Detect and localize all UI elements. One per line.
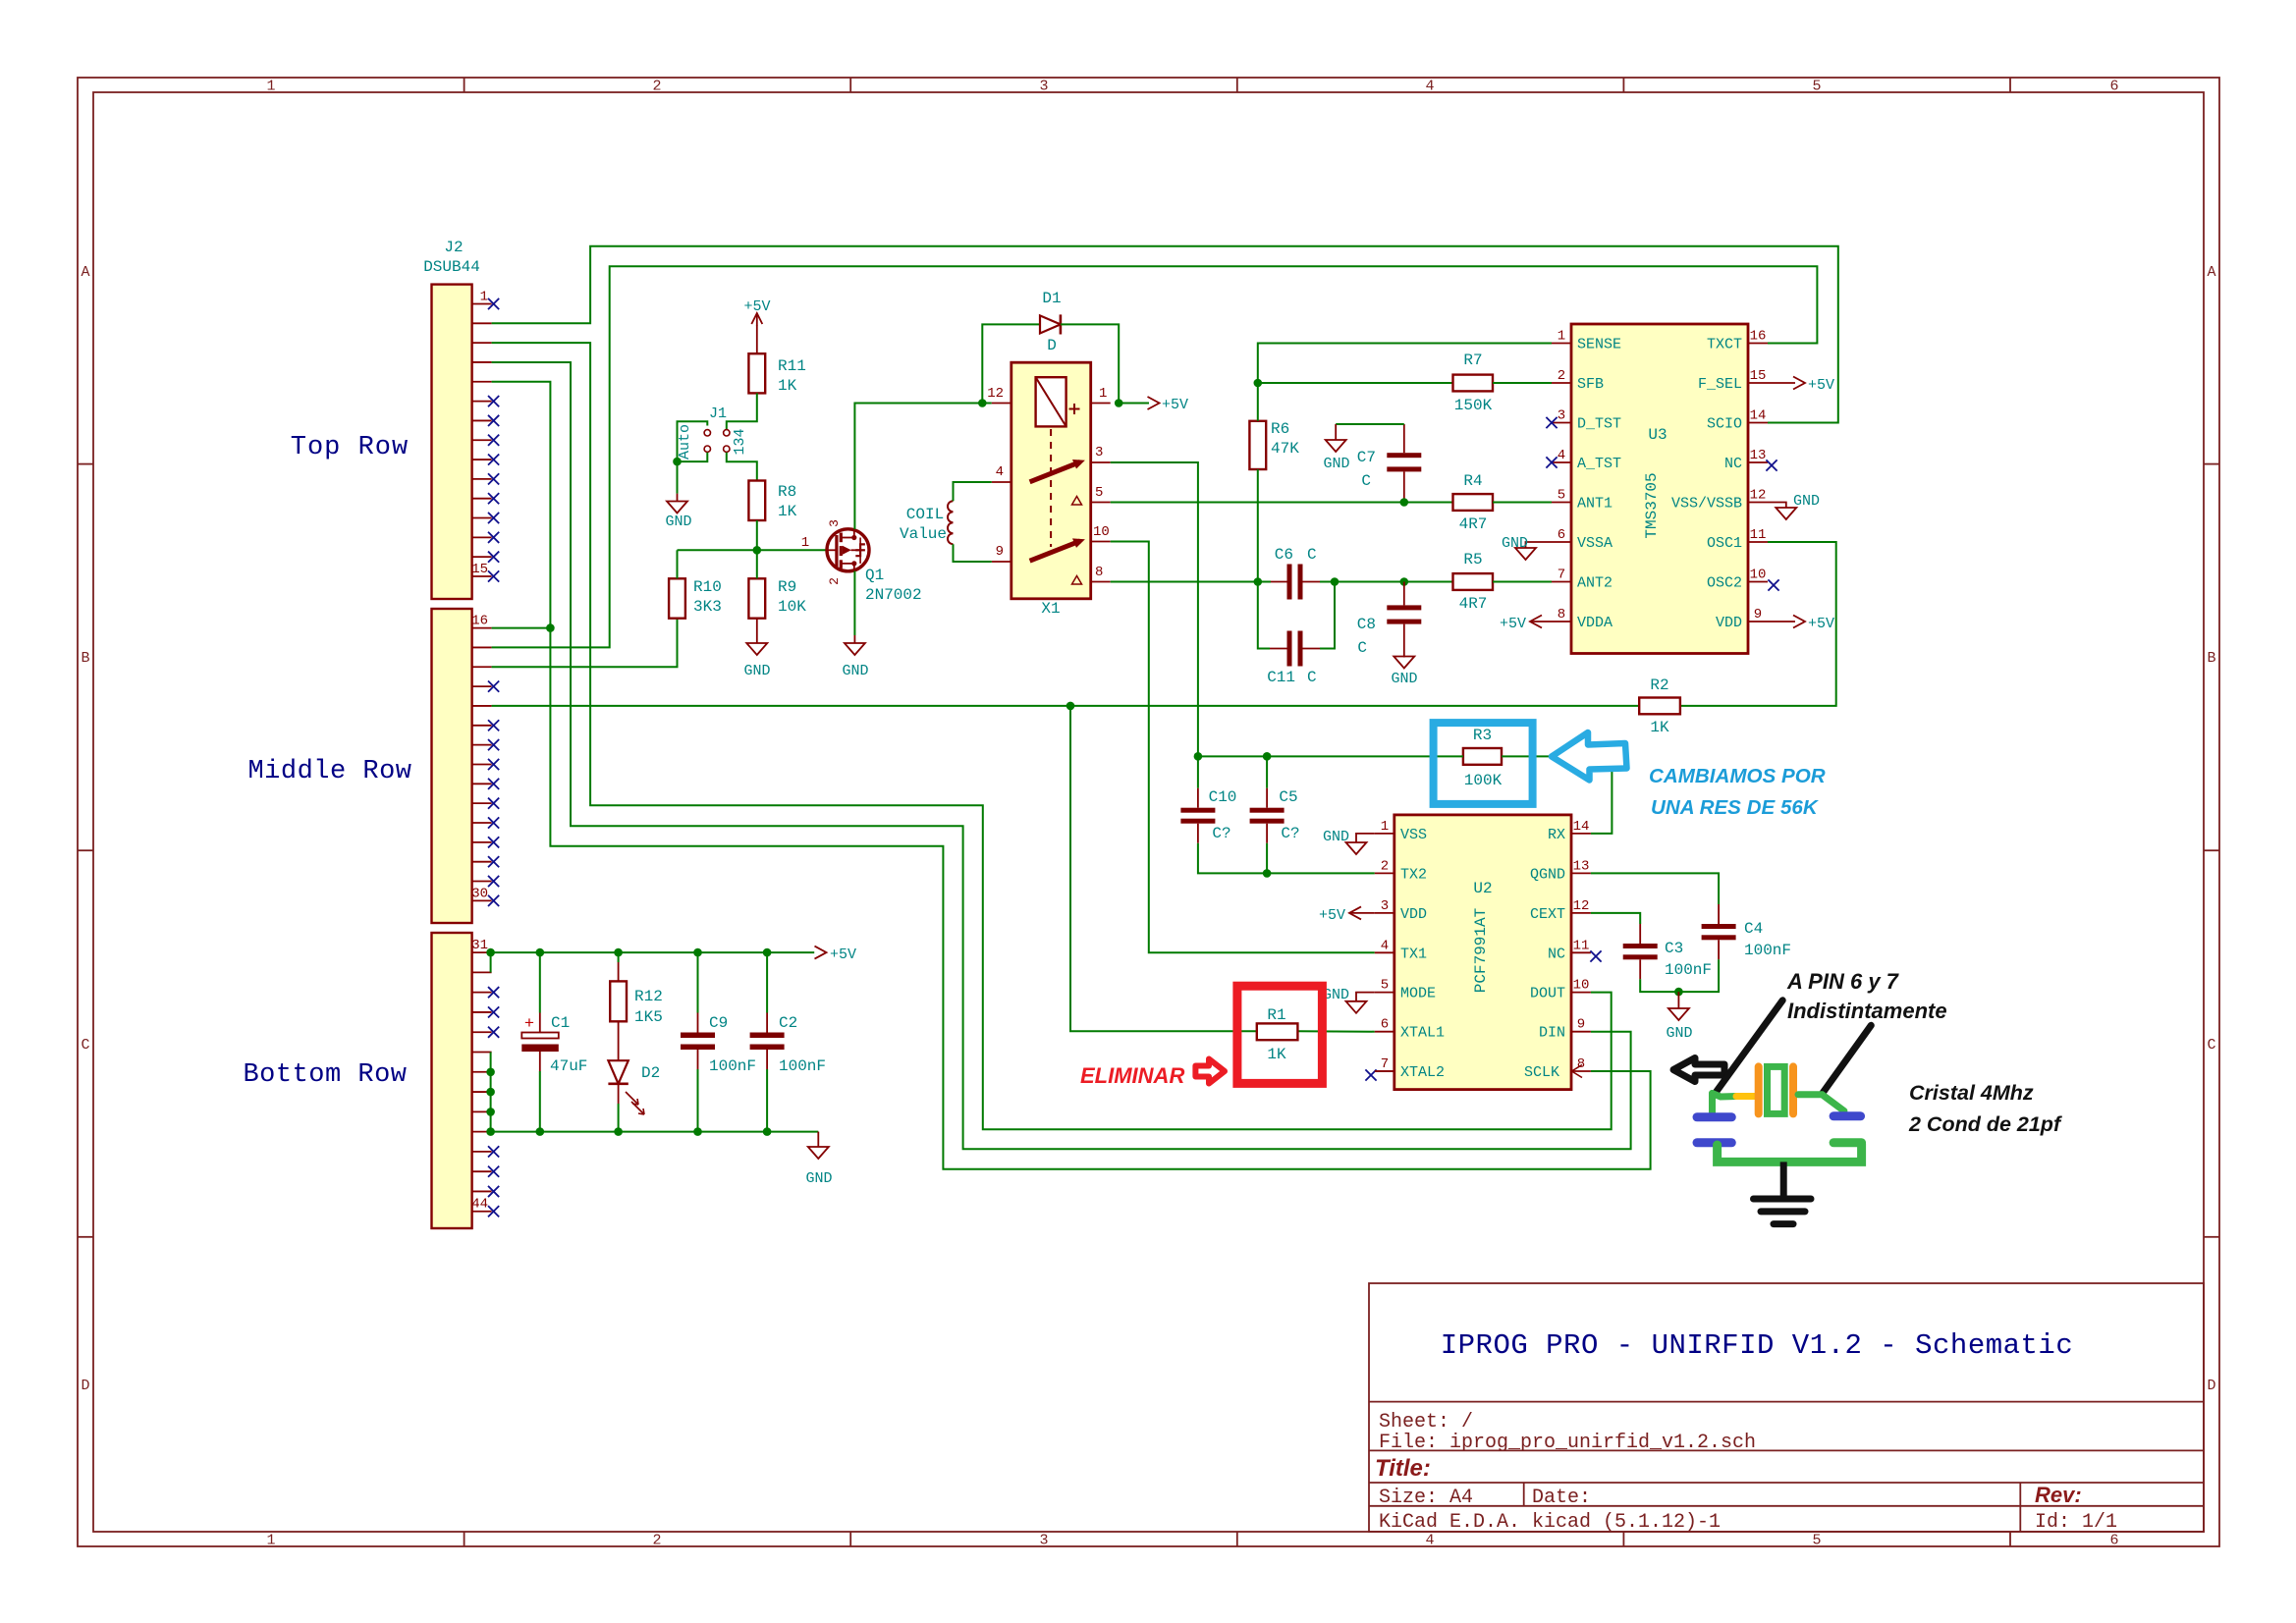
wire U3 SENSE	[1258, 344, 1552, 384]
svg-text:16: 16	[471, 614, 488, 629]
ground U3 VSS/VSSB	[1768, 503, 1786, 509]
svg-text:R6: R6	[1271, 420, 1289, 438]
svg-text:PCF7991AT: PCF7991AT	[1472, 908, 1490, 993]
svg-text:44: 44	[471, 1197, 488, 1213]
wire R4 to U3 ANT1	[1493, 502, 1552, 504]
frame row labels	[81, 264, 2215, 1394]
svg-text:2: 2	[827, 577, 842, 585]
svg-text:5: 5	[1812, 79, 1821, 95]
svg-text:D_TST: D_TST	[1577, 416, 1621, 433]
svg-text:1K5: 1K5	[634, 1008, 663, 1026]
svg-text:C4: C4	[1744, 920, 1763, 938]
svg-text:D: D	[1047, 337, 1057, 354]
power +5V bottom rail	[815, 947, 827, 959]
svg-text:Cristal 4Mhz: Cristal 4Mhz	[1909, 1081, 2034, 1105]
svg-text:8: 8	[1577, 1056, 1585, 1072]
wire R3 to U2 RX	[1502, 756, 1612, 834]
ground C7	[1326, 440, 1346, 452]
svg-text:C?: C?	[1281, 825, 1299, 842]
ground R9	[746, 643, 767, 655]
wire SFB to R7	[1258, 382, 1453, 384]
svg-text:+5V: +5V	[1500, 616, 1526, 632]
svg-text:U3: U3	[1648, 426, 1667, 444]
svg-text:+5V: +5V	[1162, 397, 1188, 413]
svg-text:3: 3	[827, 519, 842, 527]
resistor R7	[1453, 375, 1494, 392]
svg-text:13: 13	[1573, 858, 1590, 874]
svg-text:15: 15	[471, 562, 488, 577]
svg-text:3K3: 3K3	[693, 598, 722, 616]
capacitor C1 47uF	[521, 952, 559, 1132]
svg-text:TX1: TX1	[1400, 946, 1427, 962]
svg-text:B: B	[81, 650, 89, 667]
svg-text:SENSE: SENSE	[1577, 337, 1621, 353]
svg-text:Auto: Auto	[677, 424, 693, 460]
svg-text:D1: D1	[1042, 290, 1061, 307]
svg-text:2 Cond de 21pf: 2 Cond de 21pf	[1908, 1112, 2062, 1136]
junction SFB node	[1254, 379, 1263, 388]
U3 no-connect pin3	[1546, 417, 1557, 428]
wire C5 bottom	[1266, 824, 1268, 843]
junction C1 top	[536, 948, 545, 957]
annotation blue box around R3	[1434, 723, 1533, 804]
resistor R6	[1249, 421, 1266, 469]
svg-text:A: A	[2207, 264, 2215, 281]
J2 middle row pins 16-30	[471, 614, 499, 906]
svg-text:4R7: 4R7	[1459, 515, 1488, 533]
inductor COIL	[948, 501, 954, 544]
resistor R3	[1463, 748, 1502, 765]
svg-text:VSS/VSSB: VSS/VSSB	[1671, 496, 1742, 513]
X1 switch arm lower	[1030, 541, 1080, 561]
wire gate to R9	[756, 550, 758, 578]
svg-text:1K: 1K	[1650, 719, 1669, 736]
power +5V at X1 pin1	[1119, 403, 1149, 405]
wire R9 to GND	[756, 619, 758, 643]
crystal drawing yellow segment	[1736, 1093, 1758, 1100]
svg-text:C2: C2	[779, 1014, 797, 1032]
svg-text:C11: C11	[1267, 669, 1295, 686]
ground U2 MODE	[1356, 993, 1375, 1001]
svg-text:+5V: +5V	[743, 298, 770, 315]
junction C7/ANT1	[1400, 498, 1409, 507]
svg-text:134: 134	[732, 428, 748, 455]
svg-text:R5: R5	[1463, 551, 1482, 568]
svg-text:9: 9	[1754, 607, 1762, 622]
wire J2 pin4 to U2 DIN	[492, 362, 1631, 1149]
svg-text:Middle Row: Middle Row	[247, 757, 411, 786]
svg-text:D: D	[2207, 1378, 2215, 1394]
svg-text:30: 30	[471, 886, 488, 901]
wire C7 top to GND	[1403, 424, 1405, 453]
svg-text:+: +	[524, 1015, 534, 1034]
wire GND rail bottom	[491, 1131, 819, 1133]
svg-text:R9: R9	[778, 578, 796, 596]
svg-text:C: C	[1307, 546, 1317, 564]
svg-text:A: A	[81, 264, 89, 281]
svg-text:X1: X1	[1041, 600, 1060, 618]
svg-text:5: 5	[1095, 485, 1103, 501]
wire J2 pin17 to U3 TXCT (inner top rail)	[492, 266, 1818, 647]
capacitor C6	[1287, 565, 1303, 600]
junction C2 top	[763, 948, 772, 957]
junction pin39	[486, 1108, 495, 1116]
svg-text:J2: J2	[444, 239, 463, 256]
crystal earth ground (black)	[1754, 1199, 1812, 1224]
wire R3 line	[1198, 755, 1463, 757]
capacitor C3	[1623, 944, 1658, 959]
crystal right capacitor plate (blue)	[1833, 1111, 1861, 1120]
svg-text:2N7002: 2N7002	[865, 586, 922, 604]
wire J2 pins 36-39 vertical	[490, 1053, 492, 1132]
svg-text:Sheet: /: Sheet: /	[1379, 1411, 1473, 1434]
svg-text:6: 6	[1381, 1017, 1389, 1033]
junction C3/C4 gnd	[1674, 988, 1683, 997]
wire R6 to ANT2	[1257, 469, 1259, 582]
svg-text:R11: R11	[778, 357, 806, 375]
wire C11 right	[1303, 648, 1321, 650]
svg-text:7: 7	[1558, 568, 1565, 583]
wire R2 to U3 OSC1	[1680, 542, 1836, 706]
svg-text:1: 1	[266, 1533, 275, 1549]
svg-text:5: 5	[1812, 1533, 1821, 1549]
X1 switch arm upper	[1030, 462, 1080, 482]
wire J1 right lower to R8	[727, 453, 757, 481]
svg-text:ANT2: ANT2	[1577, 575, 1613, 592]
svg-text:Id: 1/1: Id: 1/1	[2035, 1511, 2117, 1534]
wire R8 to gate node	[756, 520, 758, 550]
resistor R9	[748, 578, 765, 618]
ground U3 VSSA	[1526, 542, 1553, 548]
annotation black arrow left	[1673, 1058, 1724, 1082]
wire R1 to U2 XTAL1	[1297, 1030, 1374, 1032]
svg-text:R3: R3	[1473, 727, 1492, 744]
svg-text:R2: R2	[1650, 676, 1668, 694]
IC U3 TMS3705 body	[1571, 324, 1748, 654]
power +5V above R11	[751, 313, 762, 324]
svg-text:3: 3	[1039, 1533, 1048, 1549]
annotation blue arrow	[1552, 732, 1627, 781]
svg-text:VDD: VDD	[1716, 615, 1742, 631]
junction gate	[753, 546, 762, 555]
wire J1 left lower	[678, 453, 708, 461]
resistor R2	[1639, 698, 1680, 715]
X1 pin 9	[992, 561, 1011, 563]
svg-text:IPROG PRO - UNIRFID V1.2 - Sch: IPROG PRO - UNIRFID V1.2 - Schematic	[1441, 1329, 2074, 1362]
wire J2 pin18 to R10	[492, 619, 678, 668]
wire +5V rail bottom	[491, 951, 815, 953]
annotation pointer line 2	[1822, 1025, 1871, 1094]
transistor Q1 2N7002	[827, 529, 870, 571]
wire CEXT to C3	[1591, 913, 1640, 924]
ground C8	[1394, 657, 1414, 669]
svg-text:14: 14	[1573, 819, 1590, 835]
svg-text:4: 4	[1425, 79, 1434, 95]
svg-text:+5V: +5V	[1319, 907, 1345, 924]
svg-text:1: 1	[480, 290, 488, 305]
svg-text:1K: 1K	[778, 503, 797, 520]
X1 pin 8	[1091, 581, 1111, 583]
junction R2 node	[1066, 702, 1075, 711]
svg-text:CAMBIAMOS POR: CAMBIAMOS POR	[1649, 765, 1826, 787]
wire Q1 source to GND	[853, 571, 855, 636]
svg-text:Size: A4: Size: A4	[1379, 1487, 1473, 1509]
svg-text:10K: 10K	[778, 598, 806, 616]
svg-text:6: 6	[1558, 527, 1565, 543]
svg-text:CEXT: CEXT	[1530, 906, 1565, 923]
capacitor C5	[1250, 808, 1285, 824]
resistor R1	[1257, 1023, 1298, 1040]
svg-text:12: 12	[1750, 488, 1767, 504]
svg-text:SFB: SFB	[1577, 376, 1604, 393]
svg-text:8: 8	[1558, 607, 1565, 622]
svg-text:5: 5	[1558, 488, 1565, 504]
svg-text:12: 12	[1573, 898, 1590, 914]
U2 SCLK clock chevron	[1572, 1065, 1583, 1078]
U2 no-connect pin11	[1590, 950, 1601, 961]
ground Q1	[845, 643, 865, 655]
wire X1 pin10 to U2 TX1	[1111, 542, 1375, 953]
junction rail pin40	[486, 1127, 495, 1136]
svg-text:4: 4	[1425, 1533, 1434, 1549]
junction C5 top	[1263, 752, 1272, 761]
crystal left capacitor plates (blue)	[1697, 1117, 1731, 1143]
svg-text:ELIMINAR: ELIMINAR	[1080, 1063, 1184, 1088]
capacitor C11	[1287, 631, 1303, 667]
power +5V U3 F_SEL	[1768, 382, 1795, 384]
svg-text:3: 3	[1558, 408, 1565, 424]
capacitor C2	[750, 952, 785, 1132]
wire C7 bottom to ANT1	[1403, 471, 1405, 502]
resistor R5	[1453, 573, 1494, 590]
connector J2 middle-row body	[432, 609, 472, 923]
svg-text:DSUB44: DSUB44	[423, 258, 480, 276]
ground J1	[667, 502, 687, 514]
resistor R11	[748, 353, 765, 393]
svg-text:A PIN 6 y 7: A PIN 6 y 7	[1786, 969, 1900, 994]
svg-text:7: 7	[1381, 1056, 1389, 1072]
svg-text:3: 3	[1381, 898, 1389, 914]
svg-text:3: 3	[1095, 445, 1103, 460]
svg-text:6: 6	[2109, 79, 2118, 95]
capacitor C8	[1387, 605, 1421, 623]
svg-text:C: C	[1361, 472, 1371, 490]
resistor R12	[618, 952, 620, 962]
svg-text:R7: R7	[1463, 352, 1482, 369]
wire QGND to C4	[1591, 873, 1719, 904]
wire J1 left to GND	[678, 421, 708, 493]
wire node to R1	[1070, 706, 1257, 1031]
wire C3/C4 to gnd rail	[1639, 959, 1641, 979]
svg-text:A_TST: A_TST	[1577, 456, 1621, 472]
svg-text:100nF: 100nF	[779, 1057, 826, 1075]
svg-text:100K: 100K	[1464, 772, 1503, 789]
svg-text:100nF: 100nF	[1744, 942, 1791, 959]
svg-text:ANT1: ANT1	[1577, 496, 1613, 513]
ground U2 VSS	[1356, 834, 1375, 842]
svg-text:10: 10	[1093, 524, 1110, 540]
svg-text:SCIO: SCIO	[1707, 416, 1742, 433]
svg-text:10: 10	[1750, 568, 1767, 583]
junction C9 bottom	[693, 1127, 702, 1136]
X1 pin 3	[1091, 461, 1111, 463]
J2 top row pins 1-15	[471, 290, 499, 582]
crystal bottom green wire	[1718, 1144, 1862, 1162]
wire R7 to U3 pin2	[1493, 382, 1552, 384]
wire J2 pin5/pin16 to U2 SCLK	[492, 382, 1651, 1169]
svg-text:C3: C3	[1665, 940, 1683, 957]
wire X1 pin3 down to R3 node	[1111, 462, 1198, 756]
svg-text:File: iprog_pro_unirfid_v1.2.s: File: iprog_pro_unirfid_v1.2.sch	[1379, 1432, 1756, 1454]
svg-text:2: 2	[1381, 858, 1389, 874]
U3 no-connect pin4	[1546, 457, 1557, 467]
frame column ticks	[465, 78, 2010, 1546]
svg-text:U2: U2	[1473, 880, 1492, 897]
svg-text:4R7: 4R7	[1459, 595, 1488, 613]
svg-text:Title:: Title:	[1375, 1455, 1431, 1482]
svg-text:GND: GND	[842, 663, 868, 679]
connector J2 top-row body	[432, 285, 472, 599]
svg-text:2: 2	[652, 1533, 661, 1549]
X1 pin 12	[992, 403, 1011, 405]
svg-text:C: C	[1357, 639, 1367, 657]
junction J1 gnd	[673, 458, 682, 466]
wire C5 top	[1266, 756, 1268, 787]
svg-text:XTAL2: XTAL2	[1400, 1064, 1445, 1081]
svg-text:31: 31	[471, 938, 488, 953]
svg-text:5: 5	[1381, 978, 1389, 994]
svg-text:1: 1	[266, 79, 275, 95]
relay X1 body	[1011, 362, 1091, 599]
junction TX2/C5	[1263, 869, 1272, 878]
svg-text:2: 2	[1558, 368, 1565, 384]
wire pin32 up	[490, 952, 492, 972]
svg-text:+5V: +5V	[1808, 377, 1834, 394]
svg-text:VSSA: VSSA	[1577, 535, 1613, 552]
svg-text:OSC1: OSC1	[1707, 535, 1742, 552]
junction C9 top	[693, 948, 702, 957]
annotation pointer line 1	[1717, 1001, 1783, 1092]
svg-text:C6: C6	[1275, 546, 1293, 564]
wire J2 pin3 to U2 DOUT	[492, 343, 1612, 1129]
resistor R10	[669, 578, 685, 618]
capacitor C4	[1702, 924, 1736, 940]
svg-text:+5V: +5V	[1808, 616, 1834, 632]
svg-text:11: 11	[1573, 938, 1590, 953]
svg-text:8: 8	[1095, 565, 1103, 580]
svg-text:Bottom Row: Bottom Row	[243, 1060, 407, 1090]
crystal right capacitor plate (green)	[1833, 1138, 1862, 1147]
crystal green body	[1768, 1066, 1785, 1113]
svg-text:1K: 1K	[1267, 1046, 1286, 1063]
svg-text:TMS3705: TMS3705	[1643, 472, 1661, 538]
svg-text:9: 9	[1577, 1017, 1585, 1033]
J2 bottom row pins 31-44	[471, 938, 499, 1217]
svg-text:GND: GND	[1666, 1025, 1692, 1042]
X1 coil box	[1036, 377, 1066, 426]
crystal ground stem (black)	[1780, 1162, 1787, 1199]
power +5V U3 VDD	[1768, 621, 1795, 622]
X1 pin 10	[1091, 541, 1111, 543]
svg-text:GND: GND	[1323, 829, 1349, 845]
junction ANT2 at R6	[1254, 577, 1263, 586]
svg-text:1: 1	[1099, 386, 1107, 402]
svg-text:DIN: DIN	[1539, 1025, 1565, 1042]
svg-text:R12: R12	[634, 988, 663, 1005]
svg-text:COIL: COIL	[906, 506, 944, 523]
junction pin37	[486, 1068, 495, 1077]
svg-text:RX: RX	[1548, 827, 1565, 843]
crystal right orange electrode	[1789, 1066, 1797, 1113]
svg-text:Top Row: Top Row	[291, 433, 409, 462]
svg-text:C9: C9	[709, 1014, 728, 1032]
svg-text:15: 15	[1750, 368, 1767, 384]
svg-text:C?: C?	[1212, 825, 1230, 842]
svg-text:J1: J1	[709, 406, 727, 422]
svg-text:6: 6	[2109, 1533, 2118, 1549]
svg-text:NC: NC	[1548, 946, 1565, 962]
svg-text:Date:: Date:	[1532, 1487, 1591, 1509]
junction R3 left / C10	[1194, 752, 1203, 761]
wire gate rail	[678, 549, 827, 551]
wire C11 left	[1258, 582, 1270, 649]
resistor R8	[748, 481, 765, 521]
svg-text:D: D	[81, 1378, 89, 1394]
U3 right pins	[1671, 329, 1768, 632]
wire TX2 rail	[1197, 824, 1199, 843]
X1 pin 4	[992, 481, 1011, 483]
wire X1 pin4 to coil	[954, 482, 992, 501]
wire C10 top	[1197, 756, 1199, 787]
svg-text:R10: R10	[693, 578, 722, 596]
svg-text:UNA RES DE 56K: UNA RES DE 56K	[1651, 796, 1820, 819]
svg-text:+5V: +5V	[830, 947, 856, 963]
svg-text:GND: GND	[743, 663, 770, 679]
wire XTAL2 stub	[1375, 1070, 1394, 1072]
svg-text:C7: C7	[1357, 449, 1376, 466]
X1 plus sign	[1069, 408, 1080, 410]
svg-text:100nF: 100nF	[709, 1057, 756, 1075]
U2 no-connect XTAL2	[1365, 1069, 1376, 1080]
wire X1 pin8 ANT2	[1111, 581, 1271, 583]
svg-text:D2: D2	[641, 1064, 660, 1082]
junction pin38	[486, 1088, 495, 1097]
U3 no-connect pin13	[1766, 460, 1777, 470]
capacitor C10	[1180, 808, 1215, 824]
junction rail pin31	[486, 948, 495, 957]
wire J2 pin2 to U3 SCIO (outer top rail)	[492, 246, 1838, 423]
U3 no-connect pin10	[1768, 579, 1778, 590]
svg-text:Indistintamente: Indistintamente	[1787, 999, 1947, 1023]
svg-text:3: 3	[1039, 79, 1048, 95]
wire gate to R10	[677, 550, 679, 578]
svg-text:47uF: 47uF	[550, 1057, 587, 1075]
wire X1 pin5 ANT1	[1111, 502, 1453, 504]
svg-text:TX2: TX2	[1400, 866, 1427, 883]
junction ANT2 right of C6	[1331, 577, 1339, 586]
svg-text:OSC2: OSC2	[1707, 575, 1742, 592]
U2 left pins	[1375, 819, 1445, 1081]
svg-text:4: 4	[996, 464, 1004, 480]
junction D1 left	[978, 399, 987, 407]
svg-text:GND: GND	[1793, 493, 1820, 510]
svg-text:GND: GND	[665, 514, 691, 530]
svg-text:B: B	[2207, 650, 2215, 667]
svg-text:F_SEL: F_SEL	[1698, 376, 1742, 393]
ground bottom rail	[817, 1132, 819, 1147]
annotation red arrow	[1195, 1059, 1225, 1084]
U2 right pins	[1524, 819, 1591, 1081]
